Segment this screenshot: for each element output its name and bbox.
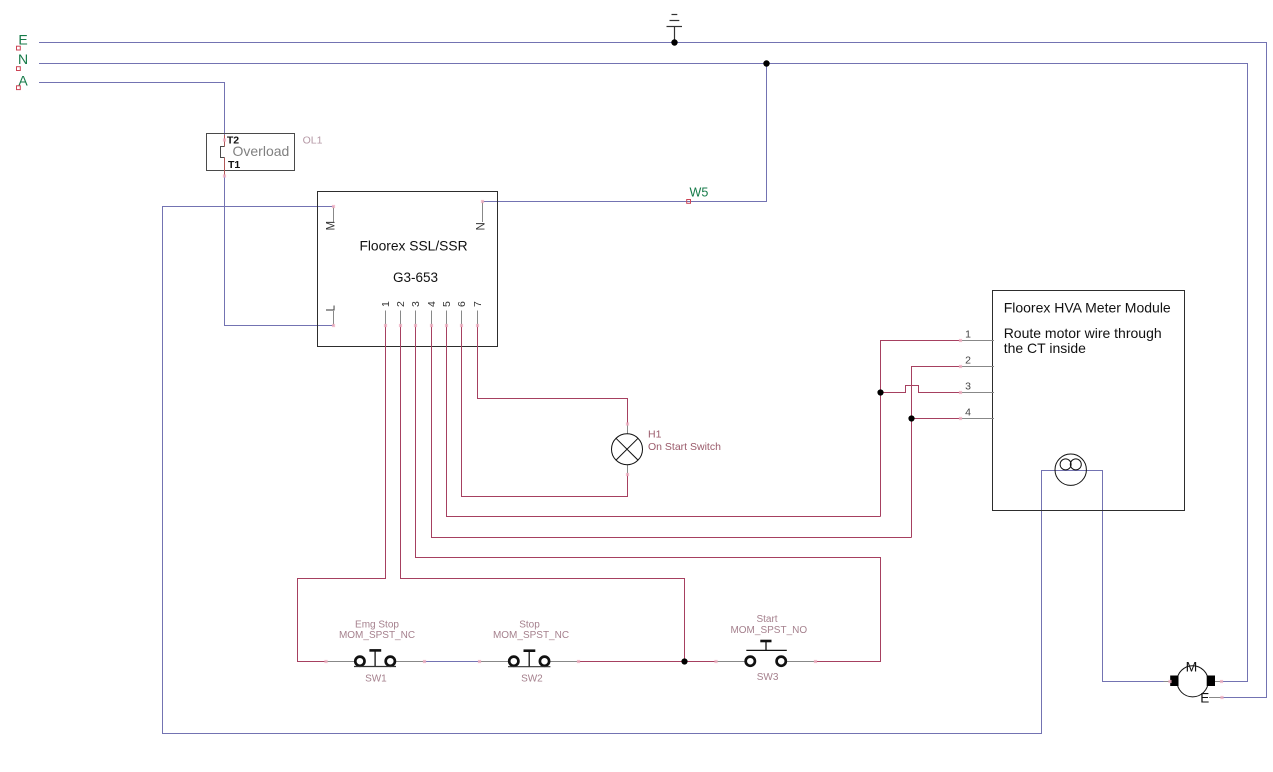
junction ground-E <box>671 39 677 45</box>
svg-text:3: 3 <box>965 381 971 393</box>
svg-text:SW2: SW2 <box>521 674 543 685</box>
wire SSL pin1 to SW1 left <box>298 326 386 662</box>
svg-text:Start: Start <box>756 614 777 625</box>
node N label <box>17 51 29 71</box>
switch SW3 Start <box>716 614 816 683</box>
svg-text:the CT inside: the CT inside <box>1004 340 1086 356</box>
svg-text:On Start Switch: On Start Switch <box>648 441 721 453</box>
overload OL1 <box>207 134 295 177</box>
svg-text:SW1: SW1 <box>365 674 387 685</box>
svg-text:6: 6 <box>456 301 468 307</box>
svg-text:W5: W5 <box>690 186 709 200</box>
svg-text:Route motor wire through: Route motor wire through <box>1004 325 1162 341</box>
svg-text:3: 3 <box>410 301 422 307</box>
wire SSL pin6 to lamp bottom <box>462 326 628 497</box>
node E label <box>17 32 28 51</box>
CT current transformer <box>1055 454 1086 485</box>
lamp H1 <box>612 424 643 475</box>
svg-text:N: N <box>476 222 488 230</box>
op-amp U1 Floorex SSL/SSR box <box>318 192 498 347</box>
junction N-W5 <box>763 60 769 66</box>
wire SSL pin4 to HVA pin2 drop <box>432 326 912 538</box>
ground <box>667 15 683 43</box>
switch SW2 Stop <box>480 620 579 685</box>
wire A rail to OL1 T2 <box>39 83 225 141</box>
svg-text:M: M <box>325 221 337 231</box>
svg-text:MOM_SPST_NC: MOM_SPST_NC <box>493 630 569 641</box>
wire N drop to SSL N pin (W5) <box>483 64 767 202</box>
svg-text:4: 4 <box>965 407 971 419</box>
svg-text:5: 5 <box>441 301 453 307</box>
HVA pin labels <box>965 329 971 419</box>
junction HVA pin1/pin3 <box>877 389 883 395</box>
svg-text:2: 2 <box>395 301 407 307</box>
junction HVA pin2/pin4 <box>908 415 914 421</box>
svg-text:Floorex SSL/SSR: Floorex SSL/SSR <box>359 238 467 253</box>
wire HVA pin2 down <box>912 367 961 538</box>
svg-text:N: N <box>18 51 28 67</box>
junction SW2/SW3 <box>681 658 687 664</box>
wire SSL pin3 to SW3 right <box>416 326 881 662</box>
pin L <box>325 305 337 326</box>
wire HVA pin1 down <box>881 341 961 517</box>
wire SSL pin7 to lamp top <box>478 326 628 425</box>
H1 labels <box>648 429 721 453</box>
svg-text:1: 1 <box>380 301 392 307</box>
node A label <box>17 72 29 89</box>
svg-text:4: 4 <box>426 301 438 307</box>
wire SW1 to SW2 link <box>425 661 480 663</box>
svg-text:SW3: SW3 <box>757 672 779 683</box>
Floorex HVA Meter Module box <box>993 291 1185 511</box>
HVA pins 1-4 <box>961 341 995 419</box>
svg-text:MOM_SPST_NC: MOM_SPST_NC <box>339 630 415 641</box>
wire HVA pin4 <box>912 418 961 420</box>
svg-text:E: E <box>18 32 27 48</box>
wire N rail <box>39 64 1248 682</box>
svg-text:T1: T1 <box>228 159 240 171</box>
svg-text:2: 2 <box>965 355 971 367</box>
svg-text:M: M <box>1186 658 1198 674</box>
wire SSL pin2 to junction SW2/SW3 <box>401 326 685 662</box>
wire end marks <box>223 138 1224 699</box>
wire SSL pin5 to HVA pin1 drop <box>447 326 881 517</box>
svg-text:Floorex HVA Meter Module: Floorex HVA Meter Module <box>1004 300 1171 316</box>
wire SW2 right to SW3 left <box>579 661 717 663</box>
svg-text:7: 7 <box>472 301 484 307</box>
pin N <box>476 202 488 231</box>
motor M <box>1164 658 1223 705</box>
pin number labels 1-7 <box>380 301 484 307</box>
pins 1-7 <box>386 311 478 326</box>
wire HVA pin3 with hop <box>881 386 961 393</box>
svg-text:L: L <box>325 305 337 312</box>
pin M <box>325 207 337 231</box>
node W5 label <box>687 186 709 204</box>
wire SSL M pin to motor loop through CT <box>163 207 1164 734</box>
svg-text:Overload: Overload <box>233 143 290 159</box>
svg-text:Stop: Stop <box>519 620 540 631</box>
svg-text:MOM_SPST_NO: MOM_SPST_NO <box>730 625 807 636</box>
svg-text:OL1: OL1 <box>303 134 323 146</box>
svg-text:E: E <box>1200 690 1209 705</box>
svg-text:H1: H1 <box>648 429 662 441</box>
svg-text:Emg Stop: Emg Stop <box>355 620 399 631</box>
wire OL1 T1 to SSL L pin <box>225 176 334 326</box>
switch SW1 Emg Stop <box>326 620 425 685</box>
svg-text:G3-653: G3-653 <box>393 270 438 285</box>
svg-text:1: 1 <box>965 329 971 341</box>
